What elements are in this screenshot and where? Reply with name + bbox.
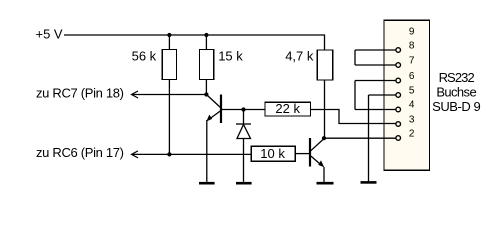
svg-text:Buchse: Buchse xyxy=(436,84,476,99)
svg-text:6: 6 xyxy=(409,71,415,82)
svg-text:4: 4 xyxy=(409,100,415,111)
svg-text:10 k: 10 k xyxy=(260,146,285,161)
svg-text:5: 5 xyxy=(409,85,415,96)
svg-text:4,7 k: 4,7 k xyxy=(285,49,314,64)
svg-text:zu RC6 (Pin 17): zu RC6 (Pin 17) xyxy=(36,145,124,160)
svg-text:22 k: 22 k xyxy=(275,101,300,116)
svg-text:8: 8 xyxy=(409,40,415,51)
svg-text:SUB-D 9: SUB-D 9 xyxy=(432,99,480,114)
svg-text:15 k: 15 k xyxy=(218,49,243,64)
svg-text:7: 7 xyxy=(409,55,415,66)
svg-text:9: 9 xyxy=(409,27,415,38)
svg-text:zu RC7 (Pin 18): zu RC7 (Pin 18) xyxy=(36,86,124,101)
svg-text:56 k: 56 k xyxy=(132,49,157,64)
svg-text:2: 2 xyxy=(409,128,415,139)
svg-text:3: 3 xyxy=(409,114,415,125)
svg-text:+5 V: +5 V xyxy=(36,26,63,41)
svg-text:RS232: RS232 xyxy=(439,70,475,85)
